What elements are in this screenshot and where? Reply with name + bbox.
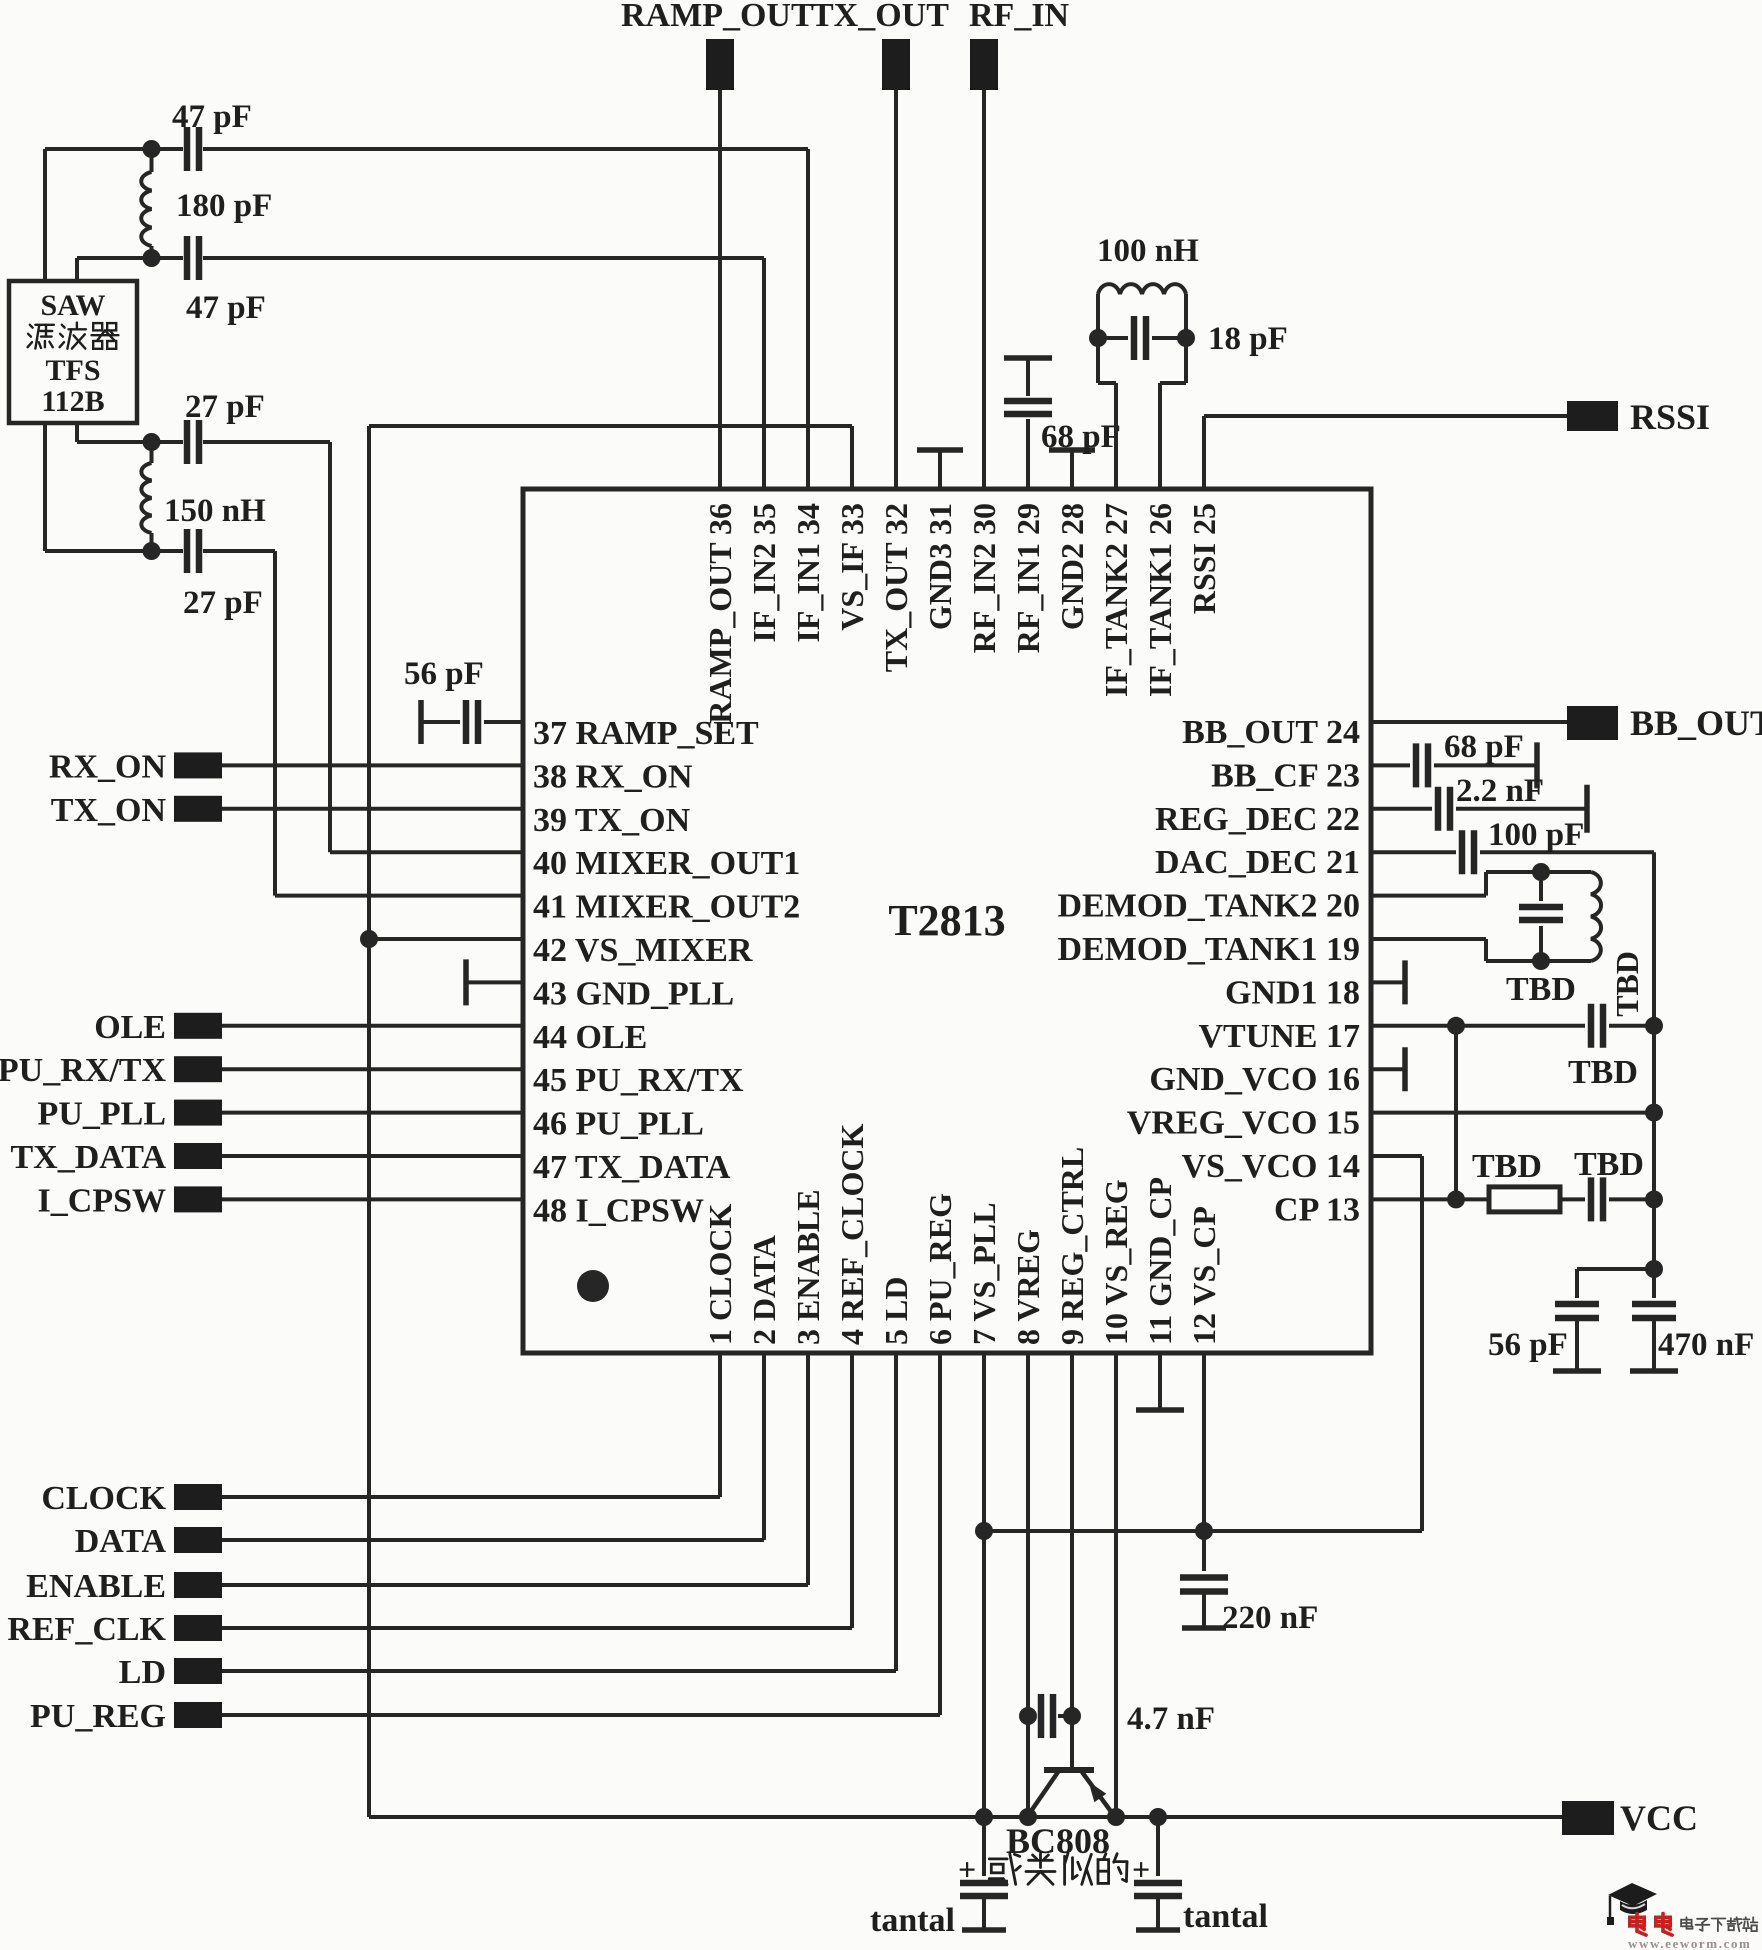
pad TX_OUT xyxy=(811,0,949,90)
junction pin17/x1456 xyxy=(1447,1017,1465,1035)
svg-text:IF_IN1 34: IF_IN1 34 xyxy=(790,503,826,643)
svg-text:T2813: T2813 xyxy=(888,896,1005,945)
svg-text:GND3 31: GND3 31 xyxy=(922,503,958,630)
pad BB_OUT and wire from pin 24 xyxy=(1371,703,1762,743)
IC U1 T2813 body xyxy=(523,489,1371,1353)
svg-text:TBD: TBD xyxy=(1609,951,1645,1017)
wire TX_OUT pad to pin 32 xyxy=(894,90,898,489)
wire pin 12 VS_CP vertical xyxy=(1202,1353,1206,1531)
svg-text:I_CPSW: I_CPSW xyxy=(38,1182,166,1219)
capacitor C1 47 pF (top) xyxy=(172,99,252,171)
svg-text:BC808: BC808 xyxy=(1006,1821,1110,1861)
wire mid rail VS_PLL/VS_CP/VS_VCO xyxy=(984,1156,1422,1531)
junction tank cap top xyxy=(1532,863,1550,881)
svg-text:BB_CF 23: BB_CF 23 xyxy=(1211,757,1360,794)
svg-text:BB_OUT 24: BB_OUT 24 xyxy=(1182,714,1360,751)
capacitor C13 2.2 nF on pin 22 REG_DEC xyxy=(1371,773,1587,833)
svg-text:27 pF: 27 pF xyxy=(185,389,265,425)
svg-text:42 VS_MIXER: 42 VS_MIXER xyxy=(533,932,753,969)
svg-text:38 RX_ON: 38 RX_ON xyxy=(533,758,693,795)
pad RF_IN xyxy=(969,0,1070,90)
pad I_CPSW xyxy=(38,1182,222,1219)
svg-text:IF_IN2 35: IF_IN2 35 xyxy=(746,503,782,643)
svg-text:40 MIXER_OUT1: 40 MIXER_OUT1 xyxy=(533,845,800,882)
capacitor C18 56 pF xyxy=(1488,1269,1654,1371)
wire right vertical rail x=1654 xyxy=(1652,852,1656,1269)
junction right rail / bypass caps xyxy=(1645,1260,1663,1278)
ground stub pin 28 GND2 xyxy=(1049,450,1095,489)
wire PU_REG pad to pin 6 xyxy=(222,1353,940,1715)
svg-text:LD: LD xyxy=(119,1654,166,1691)
wire net IF_IN2: second horizontal to pin 35 xyxy=(77,258,764,489)
svg-text:12 VS_CP: 12 VS_CP xyxy=(1186,1206,1222,1345)
pad DATA xyxy=(75,1523,222,1560)
capacitor C3 27 pF (third) xyxy=(185,389,265,464)
capacitor C10 tantal (left) xyxy=(870,1817,1008,1939)
svg-text:150 nH: 150 nH xyxy=(164,493,266,529)
svg-text:45 PU_RX/TX: 45 PU_RX/TX xyxy=(533,1062,744,1099)
wire pin 19 DEMOD_TANK1 to tank bottom xyxy=(1371,939,1591,961)
svg-text:SAW: SAW xyxy=(40,289,105,322)
pad VCC xyxy=(1562,1798,1698,1838)
wire RAMP_OUT pad to pin 36 xyxy=(718,90,722,489)
svg-text:56 pF: 56 pF xyxy=(1488,1327,1568,1363)
svg-text:6 PU_REG: 6 PU_REG xyxy=(922,1193,958,1345)
svg-text:7 VS_PLL: 7 VS_PLL xyxy=(966,1202,1002,1345)
svg-text:3 ENABLE: 3 ENABLE xyxy=(790,1189,826,1345)
svg-text:ENABLE: ENABLE xyxy=(26,1568,166,1605)
capacitor C8 4.7 nF (pins 8-9) xyxy=(1028,1694,1215,1738)
junction node VS rail / pin42 xyxy=(360,930,378,948)
wire ENABLE pad to pin 3 xyxy=(222,1353,808,1585)
svg-text:1 CLOCK: 1 CLOCK xyxy=(702,1204,738,1345)
pad RSSI and wire from pin 25 xyxy=(1204,397,1710,489)
svg-text:RAMP_OUT 36: RAMP_OUT 36 xyxy=(702,503,738,724)
SAW filter TFS 112B box xyxy=(9,281,137,423)
IC pin-1 marker dot xyxy=(577,1270,609,1302)
capacitor C15 TBD (demod tank) xyxy=(1519,872,1563,961)
pad CLOCK xyxy=(41,1480,222,1517)
svg-text:+: + xyxy=(958,1851,976,1887)
wire RX_ON pad to pin 38 xyxy=(222,763,523,767)
inductor L2 150 nH xyxy=(141,442,266,551)
wire net VS vertical rail xyxy=(367,426,371,1817)
svg-text:PU_REG: PU_REG xyxy=(30,1698,166,1735)
svg-text:REF_CLK: REF_CLK xyxy=(7,1611,166,1648)
svg-text:RSSI 25: RSSI 25 xyxy=(1186,503,1222,614)
wire net MIXER_OUT1: third horizontal to pin 40 xyxy=(77,423,523,852)
junction pin9/C8 xyxy=(1063,1707,1081,1725)
svg-text:4.7 nF: 4.7 nF xyxy=(1127,1701,1215,1737)
capacitor C5 68 pF on pin 29 RF_IN1 xyxy=(1004,358,1121,489)
capacitor C2 47 pF (second) xyxy=(186,236,266,326)
wire pin 9 REG_CTRL vertical to transistor base xyxy=(1070,1353,1074,1770)
pad TX_DATA xyxy=(10,1139,222,1176)
ground stub pin 43 GND_PLL xyxy=(466,959,523,1005)
inductor L1 (labeled 180 pF) xyxy=(141,149,272,258)
wire CLOCK pad to pin 1 xyxy=(222,1353,720,1497)
svg-text:TBD: TBD xyxy=(1506,971,1576,1008)
wire I_CPSW pad to pin 48 xyxy=(222,1197,523,1201)
svg-text:68 pF: 68 pF xyxy=(1041,419,1121,455)
svg-text:www.eeworm.com: www.eeworm.com xyxy=(1628,1936,1751,1950)
svg-text:48 I_CPSW: 48 I_CPSW xyxy=(533,1192,704,1229)
wire PU_PLL pad to pin 46 xyxy=(222,1111,523,1115)
svg-text:RF_IN: RF_IN xyxy=(969,0,1070,34)
svg-text:VS_IF 33: VS_IF 33 xyxy=(834,503,870,631)
svg-text:VS_VCO 14: VS_VCO 14 xyxy=(1181,1148,1360,1185)
junction pin13/x1654 xyxy=(1645,1190,1663,1208)
svg-text:TBD: TBD xyxy=(1574,1146,1644,1183)
svg-text:TX_OUT 32: TX_OUT 32 xyxy=(878,503,914,672)
svg-text:GND2 28: GND2 28 xyxy=(1054,503,1090,630)
svg-text:100 nH: 100 nH xyxy=(1097,233,1199,269)
junction pin12/mid rail xyxy=(1195,1522,1213,1540)
wire vertical x=1456 pin17 to pin13 xyxy=(1454,1026,1458,1200)
svg-text:tantal: tantal xyxy=(870,1902,955,1939)
svg-text:IF_TANK2 27: IF_TANK2 27 xyxy=(1098,503,1134,697)
wire TX_DATA pad to pin 47 xyxy=(222,1154,523,1158)
wire net IF_IN1: top horizontal to pin 34 xyxy=(45,149,808,489)
svg-text:TX_ON: TX_ON xyxy=(51,792,167,829)
svg-text:470 nF: 470 nF xyxy=(1658,1327,1754,1363)
svg-text:44 OLE: 44 OLE xyxy=(533,1019,647,1056)
junction node wire4/L2 xyxy=(143,542,161,560)
capacitor C19 470 nF xyxy=(1630,1269,1754,1371)
IC bottom pin labels 1-12 xyxy=(702,1124,1222,1345)
svg-text:180 pF: 180 pF xyxy=(176,188,272,224)
wire net VCC rail xyxy=(369,1815,1562,1819)
ground stub pin 11 GND_CP xyxy=(1136,1353,1184,1410)
IC left pin labels 37-48 xyxy=(533,715,800,1229)
wire pin 10 VS_REG vertical to VCC rail xyxy=(1114,1353,1118,1817)
capacitor C11 tantal (right) xyxy=(1132,1808,1268,1935)
svg-text:IF_TANK1 26: IF_TANK1 26 xyxy=(1142,503,1178,697)
junction node tank left xyxy=(1089,329,1107,347)
svg-text:47 TX_DATA: 47 TX_DATA xyxy=(533,1149,731,1186)
resistor R1 TBD on pin 13 CP xyxy=(1371,1148,1585,1212)
svg-text:112B: 112B xyxy=(41,385,104,418)
svg-text:RF_IN1 29: RF_IN1 29 xyxy=(1010,503,1046,653)
wire REF_CLK pad to pin 4 xyxy=(222,1353,852,1628)
pad PU_REG xyxy=(30,1698,222,1735)
junction node wire1/L1 xyxy=(143,140,161,158)
svg-text:GND_VCO 16: GND_VCO 16 xyxy=(1149,1061,1360,1098)
transistor Q1 BC808 (PNP) xyxy=(989,1770,1127,1884)
ground stub pin 16 GND_VCO xyxy=(1371,1047,1405,1091)
svg-text:47 pF: 47 pF xyxy=(186,290,266,326)
svg-text:PU_RX/TX: PU_RX/TX xyxy=(0,1052,166,1089)
svg-text:PU_PLL: PU_PLL xyxy=(38,1096,166,1133)
wire LD pad to pin 5 xyxy=(222,1353,896,1671)
svg-text:220 nF: 220 nF xyxy=(1222,1600,1318,1636)
junction node tank right xyxy=(1177,329,1195,347)
wire left vertical (SAW input) xyxy=(43,149,47,551)
svg-text:41 MIXER_OUT2: 41 MIXER_OUT2 xyxy=(533,889,800,926)
svg-text:100 pF: 100 pF xyxy=(1488,817,1584,853)
wire pin 15 VREG_VCO to right rail xyxy=(1371,1111,1654,1115)
svg-text:REG_DEC 22: REG_DEC 22 xyxy=(1155,801,1360,838)
svg-text:RAMP_OUT: RAMP_OUT xyxy=(621,0,814,34)
svg-text:11 GND_CP: 11 GND_CP xyxy=(1142,1177,1178,1345)
IC right pin labels 24-13 xyxy=(1057,714,1360,1228)
svg-text:43 GND_PLL: 43 GND_PLL xyxy=(533,975,734,1012)
svg-text:tantal: tantal xyxy=(1183,1898,1268,1935)
svg-text:DATA: DATA xyxy=(75,1523,167,1560)
svg-text:VCC: VCC xyxy=(1620,1798,1698,1838)
wire net VS: pin 33 VS_IF branch xyxy=(369,426,852,489)
capacitor C7 56 pF on pin 37 RAMP_SET xyxy=(404,656,523,744)
svg-text:68 pF: 68 pF xyxy=(1444,729,1524,765)
svg-text:46 PU_PLL: 46 PU_PLL xyxy=(533,1106,704,1143)
wire net MIXER_OUT2: fourth horizontal to pin 41 xyxy=(45,551,523,896)
wire OLE pad to pin 44 xyxy=(222,1024,523,1028)
svg-text:OLE: OLE xyxy=(94,1009,166,1046)
wire RF_IN pad to pin 30 xyxy=(982,90,986,489)
pad RX_ON xyxy=(49,748,222,785)
svg-text:CLOCK: CLOCK xyxy=(41,1480,166,1517)
svg-text:VTUNE 17: VTUNE 17 xyxy=(1198,1018,1360,1055)
pad TX_ON xyxy=(51,792,222,829)
pad PU_RX/TX xyxy=(0,1052,222,1089)
wire DATA pad to pin 2 xyxy=(222,1353,764,1540)
svg-text:CP 13: CP 13 xyxy=(1274,1191,1360,1228)
svg-text:9 REG_CTRL: 9 REG_CTRL xyxy=(1054,1147,1090,1345)
IC top pin labels 36-25 xyxy=(702,503,1222,724)
junction node wire3/L2 xyxy=(143,433,161,451)
svg-text:BB_OUT: BB_OUT xyxy=(1630,703,1762,743)
svg-text:2.2 nF: 2.2 nF xyxy=(1456,773,1544,809)
capacitor C16 TBD on pin 17 VTUNE xyxy=(1371,1004,1654,1091)
watermark eeworm logo xyxy=(1607,1883,1657,1925)
svg-text:DEMOD_TANK2 20: DEMOD_TANK2 20 xyxy=(1057,888,1360,925)
junction pin17/x1654 xyxy=(1645,1017,1663,1035)
wire TX_ON pad to pin 39 xyxy=(222,807,523,811)
svg-text:VREG_VCO 15: VREG_VCO 15 xyxy=(1127,1105,1360,1142)
svg-text:56 pF: 56 pF xyxy=(404,656,484,692)
ground stub pin 18 GND1 xyxy=(1371,960,1405,1004)
svg-text:RF_IN2 30: RF_IN2 30 xyxy=(966,503,1002,653)
pad REF_CLK xyxy=(7,1611,222,1648)
svg-text:TBD: TBD xyxy=(1568,1054,1638,1091)
junction tank cap bottom xyxy=(1532,952,1550,970)
capacitor C9 220 nF below pin 12 xyxy=(1180,1531,1318,1636)
pad LD xyxy=(119,1654,222,1691)
capacitor C12 68 pF on pin 23 BB_CF xyxy=(1371,729,1537,788)
inductor L3 100 nH tank (pins 27/26) xyxy=(1097,233,1199,489)
pad ENABLE xyxy=(26,1568,222,1605)
junction pin10/VCC rail xyxy=(1107,1808,1125,1826)
wire pin 8 VREG vertical xyxy=(1026,1353,1030,1817)
svg-text:DAC_DEC 21: DAC_DEC 21 xyxy=(1155,844,1360,881)
watermark text xyxy=(1628,1914,1757,1950)
pad OLE xyxy=(94,1009,222,1046)
svg-text:RX_ON: RX_ON xyxy=(49,748,167,785)
junction pin13/x1456 xyxy=(1447,1190,1465,1208)
junction pin15/x1654 xyxy=(1645,1104,1663,1122)
pad PU_PLL xyxy=(38,1096,222,1133)
wire pin 7 VS_PLL vertical to VCC rail xyxy=(982,1353,986,1817)
junction pin7/VCC rail xyxy=(975,1808,993,1826)
junction pin8/VCC rail xyxy=(1019,1808,1037,1826)
svg-text:DEMOD_TANK1 19: DEMOD_TANK1 19 xyxy=(1057,931,1360,968)
svg-text:8 VREG: 8 VREG xyxy=(1010,1229,1046,1345)
svg-text:39 TX_ON: 39 TX_ON xyxy=(533,802,691,839)
wire pin 20 DEMOD_TANK2 to tank top xyxy=(1371,872,1591,896)
junction pin8/C8 xyxy=(1019,1707,1037,1725)
svg-text:+: + xyxy=(1132,1851,1150,1887)
svg-text:TFS: TFS xyxy=(45,354,100,387)
svg-text:47 pF: 47 pF xyxy=(172,99,252,135)
capacitor C14 100 pF on pin 21 DAC_DEC xyxy=(1371,817,1654,874)
capacitor C6 18 pF (tank) xyxy=(1098,316,1288,360)
pad RAMP_OUT xyxy=(621,0,814,90)
svg-text:10 VS_REG: 10 VS_REG xyxy=(1098,1179,1134,1345)
svg-text:GND1 18: GND1 18 xyxy=(1225,974,1360,1011)
svg-text:RSSI: RSSI xyxy=(1630,397,1710,437)
wire PU_RX/TX pad to pin 45 xyxy=(222,1067,523,1071)
capacitor C17 TBD on pin 13 CP xyxy=(1574,1146,1654,1221)
svg-text:TX_OUT: TX_OUT xyxy=(811,0,949,34)
capacitor C4 27 pF (bottom) xyxy=(183,529,263,621)
inductor L4 TBD (demod tank) xyxy=(1506,872,1645,1017)
svg-text:5 LD: 5 LD xyxy=(878,1277,914,1345)
wire pin 42 VS_MIXER to VS rail xyxy=(369,937,523,941)
svg-text:18 pF: 18 pF xyxy=(1208,321,1288,357)
svg-text:2 DATA: 2 DATA xyxy=(746,1235,782,1345)
junction node wire2/L1 xyxy=(143,249,161,267)
ground stub pin 31 GND3 xyxy=(917,450,963,489)
svg-text:TX_DATA: TX_DATA xyxy=(10,1139,166,1176)
svg-text:4 REF_CLOCK: 4 REF_CLOCK xyxy=(834,1124,870,1345)
svg-text:27 pF: 27 pF xyxy=(183,585,263,621)
svg-text:TBD: TBD xyxy=(1472,1148,1542,1185)
junction pin7/mid rail xyxy=(975,1522,993,1540)
